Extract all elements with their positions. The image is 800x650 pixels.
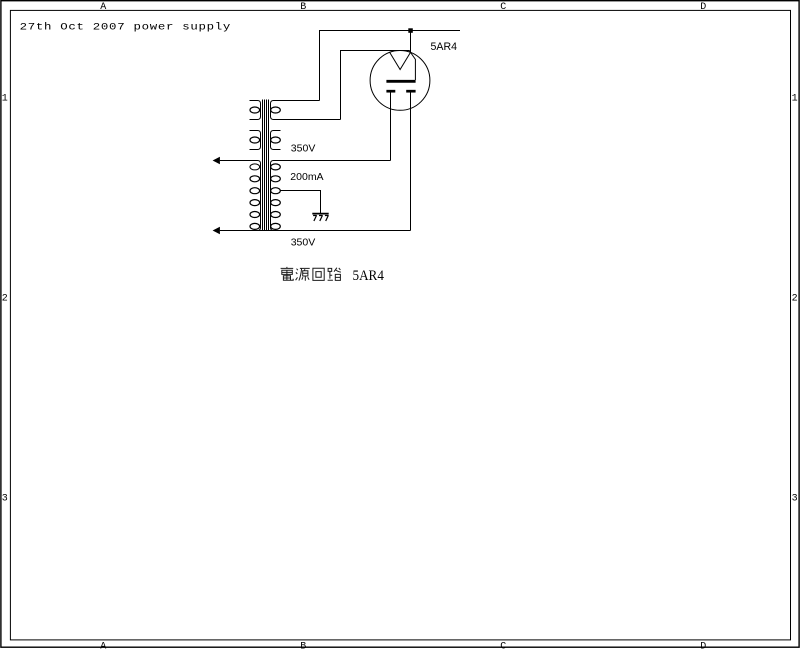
svg-text:1: 1	[2, 93, 8, 104]
transformer T1 secondary winding HT upper (to tube plate wires)	[271, 101, 341, 120]
transformer T1 primary winding P2	[250, 131, 261, 150]
svg-text:2: 2	[2, 293, 8, 304]
tube V1 anode bar	[386, 80, 415, 83]
transformer T1 secondary winding S2 right (filament)	[271, 161, 411, 231]
svg-text:5AR4: 5AR4	[353, 268, 385, 284]
wire under core	[258, 230, 274, 232]
rectifier tube V1 5AR4 envelope	[370, 51, 430, 111]
svg-text:200mA: 200mA	[290, 171, 323, 183]
svg-text:350V: 350V	[291, 142, 316, 154]
caption kanji 路	[328, 268, 341, 281]
tube V1 left leg wire	[390, 93, 392, 161]
transformer T1 core	[263, 100, 269, 231]
svg-text:1: 1	[792, 93, 798, 104]
svg-text:D: D	[700, 2, 706, 13]
arrow connector upper	[213, 157, 220, 165]
caption kanji 電	[281, 267, 294, 280]
ground	[312, 214, 328, 221]
tube V1 filament bar left	[386, 90, 395, 93]
svg-text:5AR4: 5AR4	[431, 41, 458, 53]
svg-text:350V: 350V	[291, 236, 316, 248]
tube V1 right leg wire	[410, 93, 412, 231]
transformer T1 secondary winding stub	[271, 131, 281, 150]
tube V1 plate lead	[411, 52, 416, 80]
transformer T1 secondary winding S1 left	[220, 161, 261, 231]
svg-text:27th Oct 2007 power supply: 27th Oct 2007 power supply	[20, 21, 231, 33]
svg-text:B: B	[300, 2, 306, 13]
junction node	[408, 28, 413, 33]
svg-text:B: B	[300, 642, 306, 650]
caption kanji 回	[313, 268, 324, 280]
svg-text:3: 3	[2, 493, 8, 504]
wire second HT lead to tube	[341, 51, 411, 120]
tube V1 plates V	[390, 52, 411, 69]
svg-text:A: A	[100, 642, 106, 650]
svg-text:D: D	[700, 642, 706, 650]
svg-text:3: 3	[792, 493, 798, 504]
wire from rail to tube top	[410, 31, 412, 53]
ground tap wire	[281, 191, 321, 214]
tube V1 filament bar right	[406, 90, 415, 93]
wire HT top rail	[320, 31, 461, 101]
svg-text:C: C	[500, 642, 506, 650]
transformer T1 primary winding P1	[250, 101, 261, 120]
arrow connector lower	[213, 227, 220, 235]
svg-text:A: A	[100, 2, 106, 13]
svg-text:2: 2	[792, 293, 798, 304]
svg-text:C: C	[500, 2, 506, 13]
caption kanji 源	[296, 268, 310, 280]
